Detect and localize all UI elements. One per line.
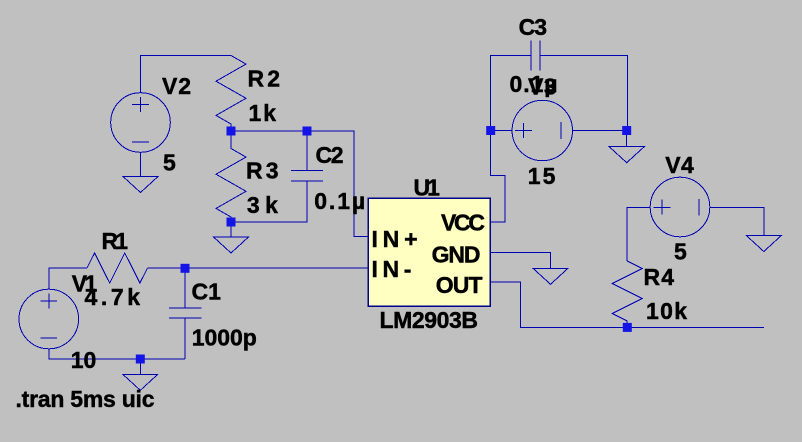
capacitor C3 xyxy=(491,40,628,130)
svg-text:10: 10 xyxy=(71,347,97,373)
wire xyxy=(307,131,368,237)
svg-text:V4: V4 xyxy=(665,152,694,178)
voltage source V2 xyxy=(111,93,171,153)
svg-text:OUT: OUT xyxy=(436,272,483,298)
junction node xyxy=(303,127,312,136)
svg-text:U1: U1 xyxy=(414,174,441,200)
junction node xyxy=(227,127,236,136)
wire xyxy=(141,56,232,93)
wire xyxy=(139,359,141,374)
wire xyxy=(710,207,764,235)
svg-text:LM2903B: LM2903B xyxy=(380,307,479,333)
wire GND pin xyxy=(491,253,551,269)
svg-text:IN-: IN- xyxy=(372,256,412,282)
svg-text:10k: 10k xyxy=(646,298,687,324)
wire xyxy=(140,152,142,176)
wire xyxy=(230,222,232,237)
svg-text:1k: 1k xyxy=(249,100,277,126)
ground xyxy=(123,374,158,390)
svg-text:R2: R2 xyxy=(248,66,281,92)
wire xyxy=(231,130,307,132)
capacitor C2 xyxy=(231,131,323,222)
junction node xyxy=(181,264,190,273)
wire xyxy=(491,130,512,132)
wire xyxy=(573,130,627,132)
resistor R1 xyxy=(87,253,148,283)
wire xyxy=(49,268,87,289)
junction node xyxy=(623,323,632,332)
svg-text:VCC: VCC xyxy=(441,210,485,236)
ground xyxy=(123,177,158,193)
junction node xyxy=(486,126,495,135)
wire VCC net xyxy=(491,131,505,223)
svg-text:5: 5 xyxy=(163,149,176,175)
svg-text:V3: V3 xyxy=(528,74,557,100)
voltage source V3 xyxy=(512,100,572,160)
svg-text:0.1µ: 0.1µ xyxy=(314,188,365,214)
ground xyxy=(609,147,644,163)
svg-text:GND: GND xyxy=(432,242,481,268)
svg-text:C1: C1 xyxy=(192,279,222,305)
wire xyxy=(49,349,185,359)
svg-text:C2: C2 xyxy=(316,142,344,168)
ground xyxy=(214,237,249,253)
op-amp U1 box xyxy=(368,198,490,306)
svg-text:5: 5 xyxy=(674,239,687,265)
junction node xyxy=(227,218,236,227)
resistor R4 xyxy=(612,261,642,327)
wire xyxy=(626,131,628,147)
wire xyxy=(148,267,369,269)
resistor R3 xyxy=(216,131,246,222)
svg-text:R4: R4 xyxy=(644,264,675,290)
svg-text:R3: R3 xyxy=(246,157,279,183)
capacitor C1 xyxy=(169,268,202,359)
ground xyxy=(533,268,568,284)
svg-text:V2: V2 xyxy=(162,73,191,99)
svg-text:4.7k: 4.7k xyxy=(85,284,141,310)
resistor R2 xyxy=(216,56,246,132)
svg-text:C3: C3 xyxy=(519,14,548,40)
voltage source V4 xyxy=(650,177,710,237)
svg-text:R1: R1 xyxy=(102,228,129,254)
wire OUT net xyxy=(491,282,764,327)
voltage source V1 xyxy=(19,289,79,349)
junction node xyxy=(622,126,631,135)
junction node xyxy=(136,355,145,364)
svg-text:.tran 5ms uic: .tran 5ms uic xyxy=(16,386,155,412)
svg-text:15: 15 xyxy=(528,163,556,189)
ground xyxy=(746,236,781,252)
wire xyxy=(627,207,650,261)
svg-text:1000p: 1000p xyxy=(192,325,257,351)
